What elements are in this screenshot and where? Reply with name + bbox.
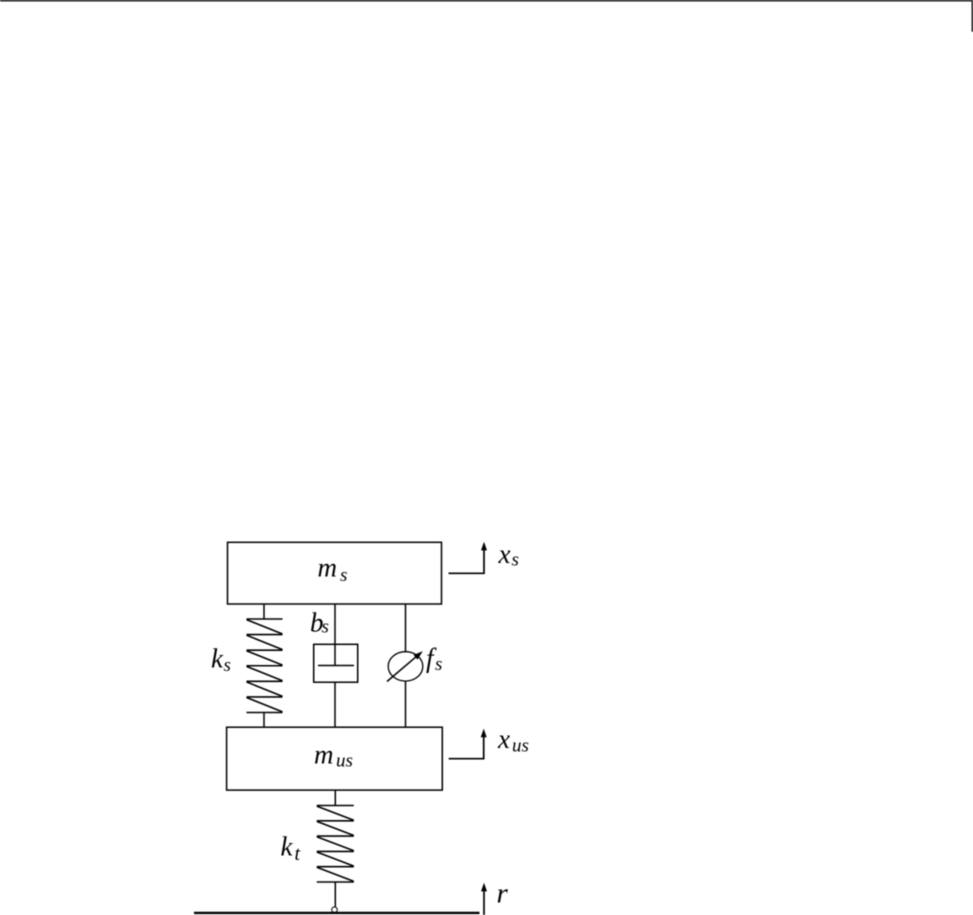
svg-text:k: k — [281, 832, 294, 862]
svg-text:s: s — [340, 565, 347, 586]
svg-text:x: x — [498, 539, 511, 569]
svg-text:k: k — [211, 644, 224, 674]
svg-text:us: us — [512, 736, 529, 757]
svg-text:us: us — [336, 751, 353, 772]
svg-text:x: x — [497, 724, 510, 754]
svg-text:m: m — [314, 740, 334, 770]
svg-text:s: s — [512, 550, 519, 571]
svg-text:s: s — [322, 617, 329, 638]
svg-text:m: m — [318, 553, 338, 583]
svg-text:r: r — [497, 878, 509, 910]
svg-text:t: t — [295, 843, 301, 865]
svg-text:s: s — [435, 654, 442, 675]
svg-text:s: s — [224, 655, 231, 676]
